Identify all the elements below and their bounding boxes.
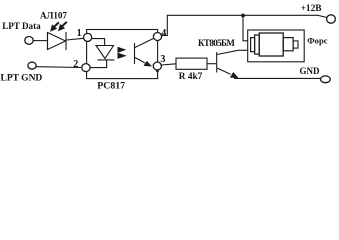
- svg-text:1: 1: [77, 28, 82, 39]
- svg-text:R 4k7: R 4k7: [179, 72, 203, 82]
- svg-text:LPT Data: LPT Data: [2, 21, 41, 31]
- svg-text:+12В: +12В: [301, 4, 322, 14]
- svg-text:PC817: PC817: [97, 80, 125, 91]
- svg-text:4: 4: [161, 28, 166, 39]
- svg-text:2: 2: [73, 59, 78, 70]
- svg-text:GND: GND: [300, 66, 321, 76]
- svg-text:АЛ107: АЛ107: [40, 10, 67, 20]
- svg-text:3: 3: [160, 54, 165, 65]
- svg-text:КТ805БМ: КТ805БМ: [198, 38, 235, 48]
- svg-text:Форс: Форс: [307, 36, 327, 46]
- svg-text:LPT GND: LPT GND: [1, 73, 43, 83]
